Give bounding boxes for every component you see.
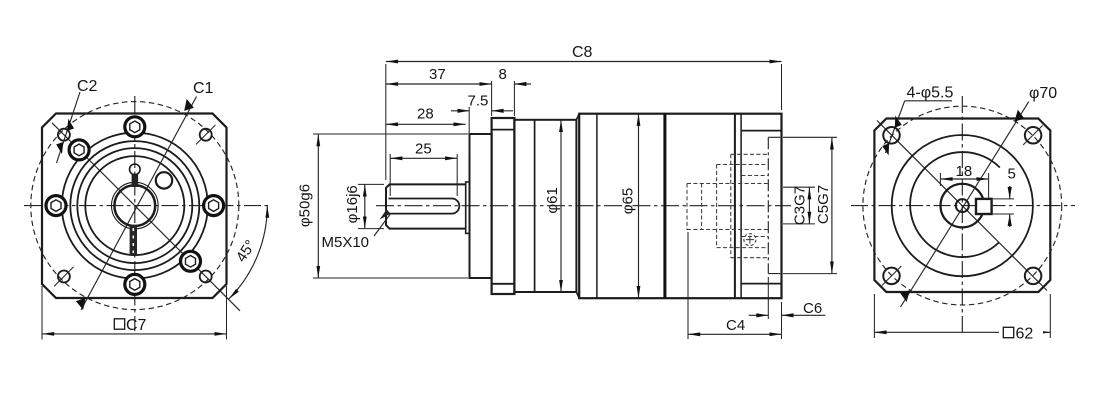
clamp slot rectangle xyxy=(976,199,992,214)
dim phi16j6 xyxy=(364,184,366,228)
boss circle phi50 xyxy=(62,133,208,279)
svg-text:5: 5 xyxy=(1008,166,1016,183)
label M5X10 leader xyxy=(374,209,391,236)
horizontal centerline xyxy=(24,205,268,207)
label C1 leader xyxy=(76,97,197,311)
dim phi16j6 extension lines xyxy=(358,184,384,228)
dim C6 extension line xyxy=(767,277,769,319)
socket screw top xyxy=(125,117,145,137)
dashed bolt circle phi70 xyxy=(863,106,1062,305)
dim 5 (outside arrows) xyxy=(1008,186,1012,227)
dim 8 (outside arrow) xyxy=(514,82,531,86)
vertical centerline xyxy=(961,96,963,332)
label phi70 leader xyxy=(900,102,1029,307)
svg-text:18: 18 xyxy=(956,163,973,180)
dim 7.5 extension line xyxy=(468,107,470,157)
dim 37 / 8 extension lines xyxy=(492,81,515,116)
output shaft xyxy=(386,184,466,228)
hidden coupling bore lines xyxy=(742,176,769,237)
svg-text:28: 28 xyxy=(417,106,434,123)
inner step circle xyxy=(85,156,184,255)
dim 62 line xyxy=(874,331,1050,333)
dim C8 xyxy=(386,61,782,63)
dim C3G7 xyxy=(808,187,810,224)
horizontal centerline xyxy=(376,205,791,207)
svg-text:7.5: 7.5 xyxy=(468,93,489,110)
dimension C7 extension lines xyxy=(42,286,227,340)
label C2 leader xyxy=(56,92,80,163)
input bore circle xyxy=(956,199,969,212)
dim phi65 xyxy=(638,114,640,299)
flange step lines xyxy=(492,130,515,284)
dim 28 xyxy=(386,123,466,125)
front flange xyxy=(492,118,515,294)
corner hole bottom-left xyxy=(883,268,900,285)
svg-text:C3G7: C3G7 xyxy=(792,186,809,225)
svg-text:C8: C8 xyxy=(572,44,593,61)
corner hole bottom-left xyxy=(58,271,70,283)
dim 25 extension lines xyxy=(390,154,457,196)
horizontal centerline xyxy=(851,205,1075,207)
dim C3G7/C5G7 extension lines xyxy=(783,137,837,273)
dim C4 extension lines xyxy=(688,232,782,339)
svg-text:C2: C2 xyxy=(77,78,98,95)
svg-text:C1: C1 xyxy=(193,80,214,97)
key slot (top, filled) xyxy=(132,174,139,187)
corner hole bottom-right xyxy=(200,271,212,283)
clamp collar (open ring) xyxy=(910,152,1000,257)
corner hole top-left xyxy=(58,129,70,141)
dimension C7 text xyxy=(114,317,146,334)
hidden coupling step 3 xyxy=(731,154,769,257)
input flange face line xyxy=(734,114,736,299)
keyway slot (bottom) xyxy=(130,225,137,255)
svg-text:25: 25 xyxy=(415,141,432,158)
dim C4 xyxy=(688,333,782,335)
step circle xyxy=(70,141,199,270)
svg-text:62: 62 xyxy=(1016,326,1034,343)
plug hole xyxy=(156,172,172,188)
svg-text:37: 37 xyxy=(429,66,446,83)
dashed pilot circle C1 xyxy=(31,102,239,310)
square flange outline xyxy=(874,119,1050,293)
phi61 housing xyxy=(514,120,576,292)
corner hole top-right xyxy=(200,129,212,141)
socket screw bottom xyxy=(125,274,145,294)
shaft shoulder ring xyxy=(466,182,470,233)
centermark TR hole xyxy=(196,125,215,144)
svg-text:φ61: φ61 xyxy=(544,187,561,213)
input flange inner wall xyxy=(740,114,742,299)
dim C6 (outside arrows) xyxy=(749,313,826,317)
svg-text:8: 8 xyxy=(499,66,507,83)
body division line 2 (thick) xyxy=(663,114,666,299)
chamfer to phi65 xyxy=(576,114,579,299)
svg-text:C6: C6 xyxy=(803,300,822,317)
vertical centerline xyxy=(134,96,136,331)
svg-text:4-φ5.5: 4-φ5.5 xyxy=(907,85,954,102)
svg-text:φ50g6: φ50g6 xyxy=(297,184,314,227)
clamp hub circle xyxy=(941,184,985,228)
svg-text:M5X10: M5X10 xyxy=(322,234,370,251)
corner hole top-right xyxy=(1025,127,1042,144)
dim C8 extension lines xyxy=(386,64,782,180)
45-degree diagonal centerline xyxy=(877,121,1047,291)
svg-text:C5G7: C5G7 xyxy=(815,185,832,224)
svg-text:C4: C4 xyxy=(726,317,745,334)
dim 62 text xyxy=(999,325,1043,343)
45 degree dimension arc xyxy=(229,206,267,299)
dim 37 xyxy=(386,83,492,85)
hidden coupling step 2 xyxy=(717,165,769,248)
dim phi50g6 xyxy=(317,134,319,278)
socket screw upper-left xyxy=(69,140,89,160)
label 4-phi5.5 leader xyxy=(882,101,952,156)
phi65 body xyxy=(579,114,781,299)
45-degree diagonal centerline xyxy=(52,123,240,311)
dim 18 xyxy=(940,178,988,180)
svg-text:φ65: φ65 xyxy=(620,188,637,214)
dim 62 extension lines xyxy=(874,294,1050,338)
socket screw left xyxy=(46,196,66,216)
dim 25 xyxy=(390,157,457,159)
input recess lines xyxy=(741,131,781,284)
socket screw lower-right xyxy=(181,251,201,271)
dim C5G7 xyxy=(831,137,833,273)
dim phi61 xyxy=(560,120,562,292)
socket screw right xyxy=(204,196,224,216)
centermark BL hole xyxy=(882,266,902,286)
pilot circle xyxy=(892,135,1033,276)
dim 7.5 xyxy=(451,109,513,113)
hidden coupling hub xyxy=(687,184,769,230)
corner hole top-left xyxy=(883,127,900,144)
dim 5 extension lines xyxy=(993,199,1014,214)
svg-text:φ70: φ70 xyxy=(1029,85,1057,102)
dimension C7 line xyxy=(42,333,227,335)
square flange outline xyxy=(42,114,227,299)
key hole circle xyxy=(130,164,141,175)
hidden clamp screw xyxy=(744,234,756,246)
dim phi50g6 extension lines xyxy=(313,134,468,278)
pilot bore (phantom) xyxy=(768,137,781,273)
shaft bore outer circle xyxy=(112,182,159,229)
corner hole bottom-right xyxy=(1025,268,1042,285)
phi50 boss xyxy=(470,134,492,278)
dim 18 extension lines xyxy=(940,173,988,198)
shaft circle phi16 xyxy=(114,185,155,226)
centermark TR hole xyxy=(1023,125,1042,144)
body division line 1 xyxy=(596,114,598,299)
housing division line xyxy=(534,120,536,292)
shaft keyway slot xyxy=(389,199,460,214)
centermark BL hole xyxy=(54,267,73,286)
bearing circle xyxy=(77,148,192,263)
svg-text:C7: C7 xyxy=(126,317,147,334)
svg-text:φ16j6: φ16j6 xyxy=(344,185,361,223)
